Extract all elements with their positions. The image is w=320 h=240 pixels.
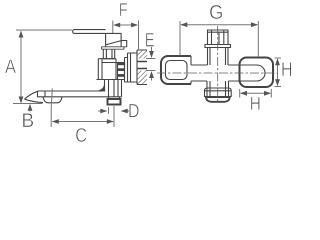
A arrow down (19, 97, 24, 104)
lever cap (102, 47, 127, 49)
F extension left (112, 21, 114, 34)
A arrow up (19, 31, 24, 38)
H bottom extensions (240, 89, 272, 98)
H right ticks (275, 58, 282, 87)
G arrow right (251, 22, 258, 27)
F dimension line (115, 24, 138, 26)
body block (97, 59, 122, 80)
centerline horizontal (157, 72, 277, 74)
C extension left (51, 89, 52, 128)
C extension right (113, 106, 115, 127)
label F (120, 3, 127, 16)
union stack band 3 (118, 74, 125, 77)
G dimension line (181, 24, 257, 26)
top branch neck (208, 48, 229, 66)
bottom cap nut (205, 97, 231, 102)
label E (146, 33, 154, 46)
spout tube (38, 80, 122, 98)
bottom collar ring (205, 88, 232, 97)
H right arrow up (275, 58, 280, 65)
wall hatch lower (137, 71, 147, 85)
main tube (191, 65, 240, 81)
D arrow left-pointing (121, 109, 128, 114)
right arm outer (240, 58, 274, 88)
label H (282, 62, 291, 76)
C arrow left (52, 119, 59, 124)
H right arrow down (275, 79, 280, 86)
D arrow right-pointing (100, 109, 107, 114)
E arrow up (149, 71, 154, 78)
label C (76, 128, 87, 142)
D arrow stems (98, 107, 130, 114)
check valve block (108, 99, 121, 105)
lever body (106, 33, 127, 47)
H right dimension line (277, 59, 279, 86)
handle plan outer (161, 56, 191, 84)
cartridge neck (103, 49, 114, 59)
tube end cap (240, 65, 265, 81)
E arrow down (149, 51, 154, 58)
handle bar (73, 30, 106, 34)
G arrow left (180, 22, 187, 27)
E arrow stems (151, 47, 153, 81)
label B (23, 113, 33, 127)
pipe through wall (137, 62, 147, 69)
label D (129, 104, 138, 117)
union stack band 2 (118, 68, 125, 71)
A top reference line (16, 29, 72, 31)
aerator bulge (43, 97, 62, 103)
handle plan inner (166, 61, 188, 80)
label H (251, 97, 260, 110)
spout rear fillet (98, 85, 104, 91)
label A (5, 60, 16, 73)
body left lower edge (104, 80, 106, 92)
F arrow right (131, 23, 138, 28)
G extension left (179, 21, 181, 56)
handle step verticals (190, 56, 192, 84)
E tick upper (146, 58, 156, 60)
A dimension line (20, 32, 22, 103)
H bottom arrow right (264, 91, 271, 96)
H bottom arrow left (240, 91, 247, 96)
spout beak (25, 91, 44, 102)
union stack (118, 63, 125, 80)
escutcheon (125, 50, 138, 85)
H bottom dimension line (241, 92, 271, 94)
F arrow left (113, 23, 120, 28)
F extension right (138, 21, 140, 51)
C dimension line (53, 121, 114, 123)
wall face (137, 50, 147, 85)
C arrow right (107, 119, 114, 124)
label G (210, 5, 222, 19)
B arrow up (28, 104, 33, 111)
wall hatch upper (137, 50, 147, 59)
bottom reference line (13, 103, 43, 105)
centerline vertical (217, 26, 219, 101)
top flange (205, 45, 231, 48)
knurled top (208, 30, 229, 45)
bottom branch pipe (207, 81, 229, 97)
check valve verticals (109, 80, 120, 100)
E tick lower (146, 70, 156, 72)
B arrow stem (29, 105, 31, 112)
G extension right (257, 21, 259, 57)
